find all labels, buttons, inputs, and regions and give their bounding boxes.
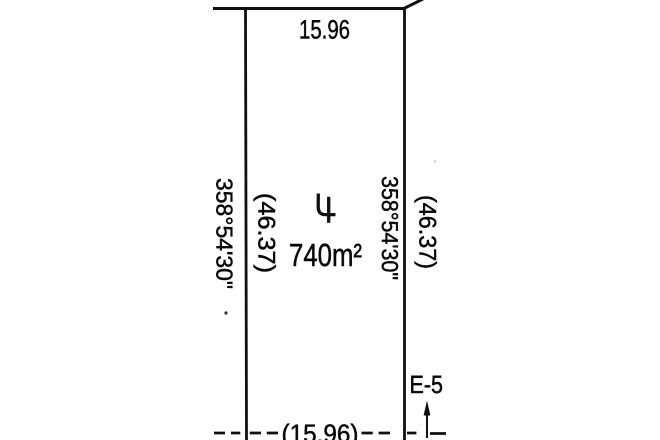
svg-text:E-5: E-5 [410,371,444,399]
bearing 358&#176;54'30" (east boundary) [377,176,403,280]
svg-text:(46.37): (46.37) [253,193,280,273]
bearing 358&#176;54'30" (west boundary) [212,178,238,289]
svg-text:(46.37): (46.37) [414,195,441,269]
lot boundary: north line (street frontage) [213,7,404,10]
dashed easement line (west portion) [214,432,278,435]
easement arrow (pointing up) [424,401,431,439]
distance (46.37) (east boundary) [414,195,441,269]
lot boundary: east side line [403,7,406,440]
distance (46.37) (west boundary) [253,193,280,273]
faint scan speck [434,160,436,162]
road splay diagonal at NE corner [404,0,424,9]
svg-text:358°54'30": 358°54'30" [377,176,403,280]
lot number 4 [318,194,335,223]
svg-text:740m²: 740m² [289,237,362,273]
lot boundary: west side line [246,7,247,440]
svg-text:(15.96): (15.96) [282,419,359,440]
svg-text:15.96: 15.96 [299,14,350,44]
survey mark dot (west boundary) [224,311,227,314]
dashed easement line (east portion) [362,432,447,435]
svg-text:358°54'30": 358°54'30" [212,178,238,289]
